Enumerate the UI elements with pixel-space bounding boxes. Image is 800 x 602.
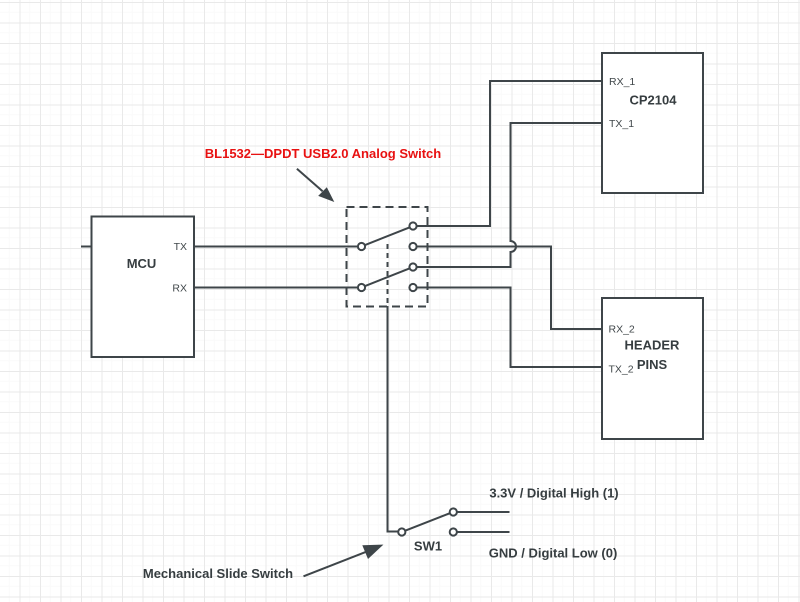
svg-text:HEADER: HEADER <box>625 338 681 353</box>
svg-text:RX_1: RX_1 <box>609 76 635 88</box>
svg-text:MCU: MCU <box>127 256 157 271</box>
svg-text:GND / Digital Low (0): GND / Digital Low (0) <box>489 546 618 561</box>
svg-text:TX_2: TX_2 <box>609 364 634 376</box>
svg-text:TX: TX <box>174 241 187 253</box>
svg-text:SW1: SW1 <box>414 539 442 554</box>
svg-text:RX: RX <box>172 282 187 294</box>
svg-text:TX_1: TX_1 <box>609 118 634 130</box>
svg-text:BL1532—DPDT USB2.0 Analog Swit: BL1532—DPDT USB2.0 Analog Switch <box>205 146 442 161</box>
svg-text:3.3V / Digital High (1): 3.3V / Digital High (1) <box>489 486 618 501</box>
svg-text:RX_2: RX_2 <box>609 324 635 336</box>
svg-text:PINS: PINS <box>637 357 668 372</box>
svg-text:Mechanical Slide Switch: Mechanical Slide Switch <box>143 566 293 581</box>
svg-text:CP2104: CP2104 <box>630 93 678 108</box>
